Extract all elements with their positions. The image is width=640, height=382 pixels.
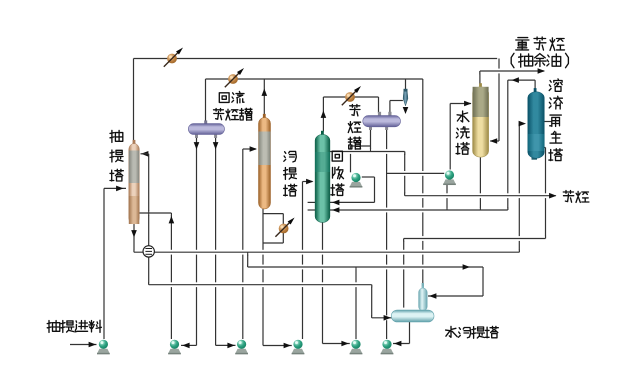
label 重芳烃 (516, 38, 529, 50)
wire: main overhead line y58 (134, 58, 498, 60)
reflux drum 回流芳烃罐 (204, 120, 207, 124)
wire: pump2 suction link (181, 344, 197, 346)
arrow up recovery overhead (321, 111, 327, 118)
pump P3 stripper reflux pump (235, 349, 247, 354)
inline mixer symbol (143, 246, 154, 257)
wire: pump2 discharge riser to extraction tower (170, 213, 172, 339)
wire: pump4 discharge riser to recovery tower (302, 182, 304, 340)
wire: bus y285 from mixer (149, 282, 372, 287)
wire: stripped-water return drop (482, 267, 484, 296)
wire: wash tower bottoms drop (479, 158, 481, 211)
wire: pump1 discharge drop (374, 177, 376, 202)
arrow feed into extraction tower (116, 186, 123, 192)
pump P2 extract reflux pump (168, 349, 180, 354)
arrow wash water into wash tower (464, 101, 471, 107)
wire: recovery tower feed inlet (303, 181, 313, 183)
aromatics drum 芳烃罐 (378, 112, 381, 116)
wire: recovery sidedraw line y150 (330, 149, 405, 154)
wire: extraction tower bottoms line (133, 224, 135, 252)
valve V2 on stripper overhead (227, 73, 239, 85)
extraction tower 抽提塔 (133, 140, 136, 145)
wire: recovery sidedraw drop to product line (404, 152, 406, 196)
arrow solvent into regenerator (519, 121, 526, 127)
wire: pump1 discharge return to recovery tower y202 (330, 201, 375, 203)
wire: pump3 discharge riser to stripper (242, 149, 244, 339)
wire: recovery overhead line y97 (323, 96, 378, 98)
wire: bus2 branch drop (247, 252, 249, 267)
recovery tower 回收塔 (321, 131, 324, 136)
wire: recovery tower overhead stem (322, 97, 324, 131)
wire: aromatics drum top nozzle left (378, 97, 380, 113)
wire: solvent riser through mixer to extraction tower top (148, 154, 150, 246)
wire: pump W bottom connection (446, 181, 448, 210)
label 芳烃 product (563, 191, 573, 203)
pump P4 stripper bottoms pump (292, 349, 304, 354)
wire: stripper bypass top (263, 213, 283, 215)
arrow into pump5 (341, 341, 348, 347)
pump P1 aromatics reflux pump (350, 182, 362, 187)
arrow on bus2 (463, 264, 470, 270)
wire: regenerator overhead run (508, 79, 535, 81)
wire: stripper bottoms down to pump4 (262, 209, 264, 346)
label 抽提进料 (47, 321, 60, 333)
label 芳烃罐 vertical (350, 105, 360, 116)
wire: solvent inlet to regenerator (519, 123, 524, 125)
wire: pump W discharge riser to wash tower (449, 104, 451, 170)
wire: raffinate drop to wash tower (498, 59, 500, 142)
wire: stripper bypass bottom (263, 242, 283, 244)
junction stubs (479, 71, 481, 75)
arrow into recovery tower right upper (332, 200, 339, 206)
arrow into pump6 (394, 341, 401, 347)
arrow aromatics product out (549, 193, 556, 199)
wire: feed riser from feed pump (103, 188, 105, 339)
label 汽提塔 (284, 151, 297, 162)
label 水汽提塔 (446, 326, 458, 337)
pump P5 recovery bottoms pump (350, 349, 362, 354)
wire: water stripper drum top feed drop (403, 239, 405, 308)
wire: wash bottoms / regen overhead return y210 (330, 208, 508, 213)
label leader ticks regenerator (544, 121, 551, 123)
wire: regenerator overhead drop (507, 80, 509, 210)
wire: reflux drum inlet drop (205, 79, 207, 122)
wire: pump3 suction link (216, 344, 236, 346)
wire: pump W suction line y173 (387, 171, 445, 176)
label (抽余油) (511, 53, 514, 67)
wire: wash tower overhead stem (479, 71, 481, 84)
wire: transfer line to water stripper drum y238 (404, 236, 546, 241)
wire: pump6 suction link (393, 343, 410, 345)
wire: wash water line to wash tower (450, 103, 471, 105)
wire: pump4 suction link (263, 345, 292, 347)
wire: pump5 discharge riser (355, 267, 357, 339)
wire: water stripper feed drop from bus3 (371, 285, 373, 318)
wire: stripped water line into column (428, 295, 483, 297)
wire: recovery tower bottoms down to pump5 (322, 223, 324, 344)
wash tower 水洗塔 (479, 83, 482, 88)
label 抽提塔 (110, 130, 123, 142)
arrow down reflux drum left outlet (194, 142, 200, 149)
wire: regenerator overhead stem (534, 80, 536, 89)
arrow into water stripper drum (384, 315, 391, 321)
wire: extraction tower overhead riser (133, 59, 135, 144)
wire: feed line into water stripper drum (372, 315, 393, 320)
arrow into extraction tower top (141, 151, 148, 157)
arrow raffinate product out (538, 68, 545, 74)
arrow into water stripper column (429, 293, 436, 299)
valve V1 on overhead line (166, 53, 178, 65)
pump PW wash water pump (443, 179, 455, 184)
wire: stripper overhead stem (263, 79, 265, 118)
arrow into stripper reflux inlet (250, 146, 257, 152)
arrow down reflux drum right outlet (213, 142, 219, 149)
arrow into recovery tower right lower (332, 207, 339, 213)
arrow into pump2 (182, 343, 189, 349)
pump P6 water stripper bottoms pump (381, 349, 393, 354)
wire: aromatics drum top nozzle right (389, 101, 391, 114)
arrow down extraction bottoms (131, 230, 137, 237)
arrow into pump4 (284, 343, 291, 349)
wire: extraction tower solvent return y213 (139, 211, 171, 216)
arrow raffinate into wash tower (490, 138, 497, 144)
valve V4 stripper bottoms bypass (278, 223, 290, 235)
wire: bus y267 to water stripper (248, 265, 483, 270)
wire: feed inlet line (70, 344, 97, 346)
label 水洗塔 (457, 111, 469, 122)
wire: reflux inlet to stripper (243, 148, 256, 150)
pump feed pump (97, 349, 109, 354)
wire: pump1 suction drop (350, 146, 352, 172)
arrow into recovery tower inlet (306, 179, 313, 185)
label 溶济再生塔 (549, 79, 562, 91)
arrow up stripper overhead (262, 89, 268, 96)
injector nozzle (404, 89, 408, 92)
wire: regenerator bottoms drop to transfer line (545, 148, 547, 239)
wire: reflux drum right outlet down to pump3 (215, 136, 217, 346)
water stripper 水汽提塔 (422, 283, 424, 290)
wire: injector needle (405, 79, 407, 91)
wire: water stripper drum bottom outlet (409, 321, 411, 344)
valve V3 on recovery overhead (344, 91, 356, 103)
wire: aromatics product line y196 (405, 193, 549, 198)
wire: stripper overhead header y79 (206, 78, 423, 80)
arrow into pump3 (227, 343, 234, 349)
wire: drum outlet to pump1 link y161 (351, 145, 371, 147)
label 回流/芳烃罐 (219, 93, 229, 103)
arrow feed into feed pump (89, 342, 96, 348)
wire: aromatics drum left outlet (370, 128, 372, 152)
wire: aromatics drum right outlet down to pump6 (386, 128, 388, 339)
wire: water stripper overhead riser (422, 79, 424, 286)
arrow regen overhead (512, 77, 519, 83)
wire: stripper bottoms valve bypass branch (282, 214, 284, 243)
solvent regeneration tower 溶剂再生塔 (532, 157, 538, 160)
label 回收塔 (332, 151, 342, 161)
wire: feed line into extraction tower (104, 187, 126, 189)
wire: raffinate product line y71 (480, 69, 542, 74)
stripper tower 汽提塔 (263, 114, 266, 119)
arrow up pump2 discharge (169, 216, 175, 223)
wire: solvent riser to regenerator (518, 124, 520, 253)
wire: raffinate inlet to wash tower (490, 140, 499, 142)
wire: reflux drum left outlet down to pump2 (196, 136, 198, 346)
wire: pump5 suction link (323, 343, 350, 345)
wire: main solvent bus y252 (134, 250, 519, 255)
label leader ticks recovery tower (308, 201, 316, 203)
wire: pump1 discharge run y177 (362, 176, 375, 178)
